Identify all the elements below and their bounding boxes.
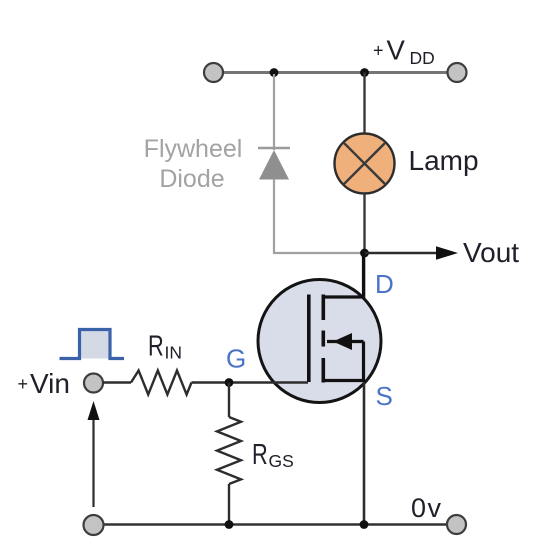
svg-text:R: R: [148, 331, 164, 363]
node +Vin label: [18, 368, 70, 399]
terminal top-left: [204, 63, 223, 82]
wire diode branch upper: [273, 74, 275, 150]
svg-text:Lamp: Lamp: [409, 145, 479, 176]
arrow input reference: [92, 419, 94, 507]
terminal input: [84, 374, 103, 393]
wire gate: [192, 381, 309, 383]
label RGS: [252, 439, 294, 471]
label RIN: [148, 331, 182, 363]
lamp LP1 cross: [343, 142, 385, 184]
svg-text:V: V: [387, 35, 406, 66]
wire lamp branch upper: [363, 73, 365, 135]
wire bottom rail: [103, 523, 447, 526]
transistor Q1 drain bar: [323, 253, 363, 297]
transistor Q1 MOSFET body: [258, 280, 381, 403]
resistor RGS zigzag: [217, 417, 241, 484]
diode D1 flywheel cathode bar: [258, 147, 290, 150]
terminal bottom-right: [447, 515, 466, 534]
transistor Q1 source bar: [323, 342, 363, 381]
wire drain lead: [363, 253, 366, 298]
svg-text:G: G: [226, 344, 246, 374]
svg-text:Vin: Vin: [30, 368, 70, 399]
svg-text:+: +: [18, 374, 29, 394]
lamp LP1 body: [335, 134, 395, 194]
wire gate node to RGS: [228, 383, 230, 418]
arrowhead input reference: [88, 401, 100, 420]
wire RGS to ground rail: [228, 484, 230, 525]
svg-text:Vout: Vout: [463, 237, 519, 268]
terminal top-right: [448, 63, 467, 82]
pulse waveform fill: [80, 330, 111, 359]
junction dot RGS ground: [225, 520, 234, 529]
transistor Q1 channel dashes: [321, 295, 325, 383]
terminal bottom-left: [84, 515, 104, 535]
junction dot diode branch: [270, 68, 279, 77]
junction dot source ground: [360, 520, 369, 529]
diode D1 flywheel triangle: [259, 150, 289, 180]
svg-text:S: S: [376, 381, 393, 411]
svg-text:Diode: Diode: [159, 165, 224, 193]
wire lamp branch lower: [363, 194, 365, 254]
wire input to resistor: [103, 381, 131, 383]
wire diode branch lower: [274, 179, 362, 253]
arrowhead Vout: [436, 246, 458, 260]
svg-text:R: R: [252, 439, 268, 471]
svg-text:0v: 0v: [411, 493, 443, 523]
junction dot Vout node: [360, 249, 369, 258]
transistor Q1 gate bar: [307, 295, 311, 383]
wire top supply rail: [218, 71, 452, 74]
node +VDD label: [373, 35, 435, 69]
resistor RIN zigzag: [131, 371, 192, 395]
wire Vout arrow line: [365, 252, 439, 254]
pulse waveform stroke: [60, 330, 125, 359]
svg-text:DD: DD: [410, 48, 435, 68]
svg-text:IN: IN: [165, 343, 183, 363]
transistor Q1 body arrowhead: [333, 333, 352, 350]
label Flywheel Diode: [144, 135, 243, 193]
svg-text:D: D: [375, 269, 394, 299]
svg-text:GS: GS: [269, 451, 294, 471]
transistor Q1 body line: [327, 340, 364, 343]
svg-text:+: +: [373, 41, 384, 61]
junction dot gate node: [225, 378, 234, 387]
junction dot lamp branch: [360, 68, 369, 77]
svg-text:Flywheel: Flywheel: [144, 135, 243, 163]
wire source lead: [363, 382, 366, 525]
